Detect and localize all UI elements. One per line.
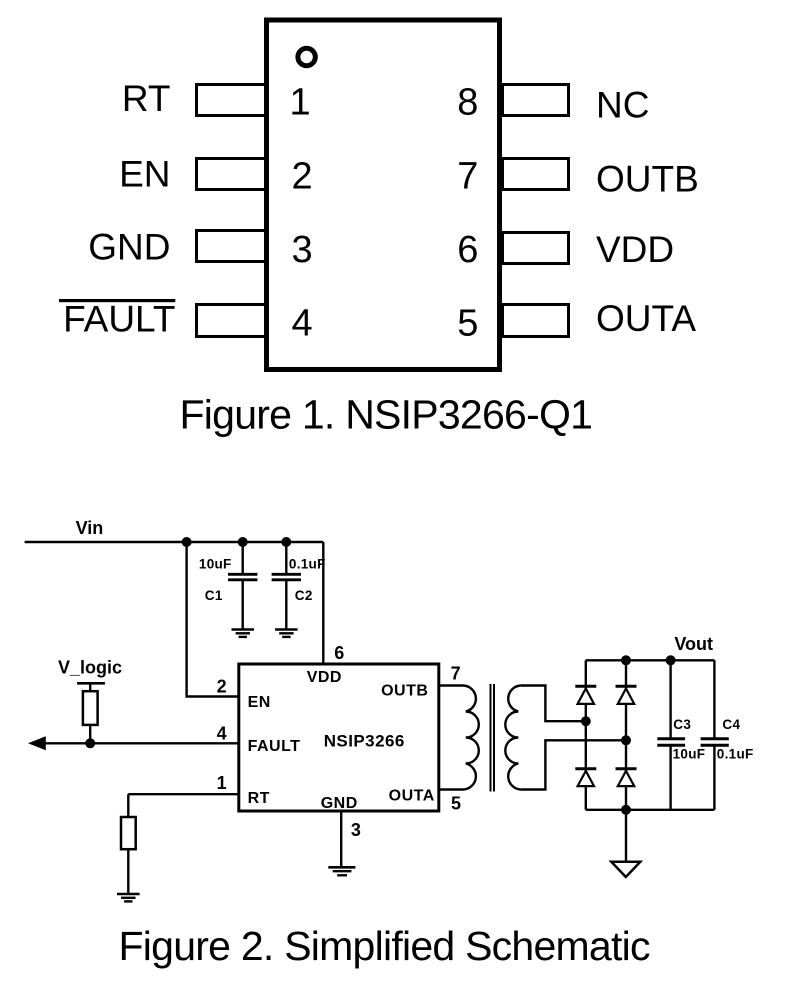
capacitor C3 <box>657 660 685 810</box>
svg-text:EN: EN <box>248 694 271 711</box>
resistor R1 (V_logic pull-up) <box>83 683 98 743</box>
svg-text:0.1uF: 0.1uF <box>289 557 326 572</box>
node AC2 junction <box>621 735 631 745</box>
svg-text:Figure 1. NSIP3266-Q1: Figure 1. NSIP3266-Q1 <box>180 392 593 438</box>
node Vin-C2 junction <box>281 537 291 547</box>
wire bridge ground stem <box>625 810 627 862</box>
svg-text:0.1uF: 0.1uF <box>717 747 754 762</box>
svg-text:FAULT: FAULT <box>248 738 301 755</box>
svg-text:V_logic: V_logic <box>58 658 122 678</box>
wire RT pin 1 <box>128 793 238 795</box>
node Vin-EN junction <box>182 537 192 547</box>
svg-text:2: 2 <box>292 156 313 198</box>
svg-text:C3: C3 <box>673 717 691 732</box>
svg-text:Vout: Vout <box>674 634 713 654</box>
pin 1 box <box>197 85 266 116</box>
svg-text:5: 5 <box>457 303 478 345</box>
wire VDD pin 6 drop <box>322 542 324 664</box>
node Vin-C1 junction <box>238 537 248 547</box>
diode D2 top-right <box>616 686 637 704</box>
pin 2 box <box>197 159 266 190</box>
pin 5 box <box>503 305 569 337</box>
node top rail right rail junction <box>621 655 631 665</box>
svg-text:VDD: VDD <box>596 229 674 270</box>
node AC1 junction <box>581 716 591 726</box>
svg-text:3: 3 <box>351 820 361 840</box>
svg-text:GND: GND <box>88 226 170 267</box>
ground under C2 <box>275 630 298 637</box>
pin 4 box <box>197 305 266 337</box>
wire GND pin 3 <box>340 811 342 867</box>
node FAULT-R1 junction <box>85 738 95 748</box>
bridge top rail <box>586 659 715 661</box>
svg-text:RT: RT <box>248 790 270 807</box>
svg-text:3: 3 <box>292 229 313 271</box>
svg-text:NC: NC <box>596 85 649 126</box>
wire secondary bottom lead AC2 <box>521 740 626 789</box>
svg-text:NSIP3266: NSIP3266 <box>324 732 405 751</box>
IC package body U1 (Figure 1) <box>267 20 500 370</box>
svg-text:Figure 2. Simplified Schematic: Figure 2. Simplified Schematic <box>119 923 650 969</box>
svg-text:GND: GND <box>321 795 358 812</box>
svg-text:FAULT: FAULT <box>63 298 175 339</box>
svg-text:RT: RT <box>122 78 171 119</box>
pin 8 box <box>503 85 569 116</box>
svg-text:C4: C4 <box>722 717 740 732</box>
FAULT overline <box>59 299 175 302</box>
svg-text:4: 4 <box>217 724 227 744</box>
bridge right rail <box>625 660 627 810</box>
node bottom rail ground junction <box>621 805 631 815</box>
capacitor C4 <box>701 660 729 810</box>
pin 7 box <box>503 159 569 190</box>
svg-text:C2: C2 <box>295 588 313 603</box>
svg-text:C1: C1 <box>205 588 223 603</box>
svg-text:Vin: Vin <box>76 518 104 538</box>
wire OUTA pin 5 <box>440 788 464 790</box>
transformer T1 primary winding <box>464 686 479 790</box>
V_logic supply bar <box>77 682 105 685</box>
svg-text:1: 1 <box>290 82 311 124</box>
svg-text:EN: EN <box>119 153 170 194</box>
pin 3 box <box>197 231 266 262</box>
wire secondary top lead AC1 <box>521 686 586 722</box>
capacitor C2 <box>272 542 301 629</box>
wire OUTB pin 7 <box>440 684 464 686</box>
transformer T1 secondary winding <box>505 686 520 790</box>
svg-text:OUTB: OUTB <box>596 159 699 200</box>
bridge bottom rail <box>586 809 715 811</box>
pin 1 indicator dot <box>298 48 315 65</box>
wire FAULT out <box>42 742 238 744</box>
svg-text:2: 2 <box>217 677 227 697</box>
ground under C1 <box>232 630 255 637</box>
diode D4 bottom-right <box>616 769 637 786</box>
ground under pin 3 <box>328 867 355 875</box>
svg-text:OUTA: OUTA <box>389 788 435 805</box>
svg-text:6: 6 <box>457 229 478 271</box>
svg-text:OUTA: OUTA <box>596 298 696 339</box>
bridge left rail <box>585 660 587 810</box>
diode D3 bottom-left <box>575 769 596 786</box>
svg-text:VDD: VDD <box>307 669 342 686</box>
svg-text:4: 4 <box>292 303 313 345</box>
svg-text:8: 8 <box>457 82 478 124</box>
diode D1 top-left <box>575 686 596 704</box>
ground chassis triangle <box>611 862 640 877</box>
svg-text:OUTB: OUTB <box>381 682 428 699</box>
svg-text:1: 1 <box>217 773 227 793</box>
svg-text:10uF: 10uF <box>673 747 706 762</box>
wire Vin rail <box>25 541 324 543</box>
svg-text:10uF: 10uF <box>199 557 232 572</box>
FAULT arrowhead <box>28 736 46 750</box>
capacitor C1 <box>228 542 257 629</box>
resistor R2 (RT set) <box>121 794 136 893</box>
svg-text:7: 7 <box>457 156 478 198</box>
ground under R2 <box>117 894 140 901</box>
svg-text:7: 7 <box>451 663 461 683</box>
wire EN branch <box>187 542 238 697</box>
svg-text:6: 6 <box>334 643 344 663</box>
transformer T1 core <box>491 684 495 792</box>
node top rail C3 junction <box>666 655 676 665</box>
svg-text:5: 5 <box>451 794 461 814</box>
pin 6 box <box>503 233 569 264</box>
op IC NSIP3266 body U2 <box>239 664 439 811</box>
